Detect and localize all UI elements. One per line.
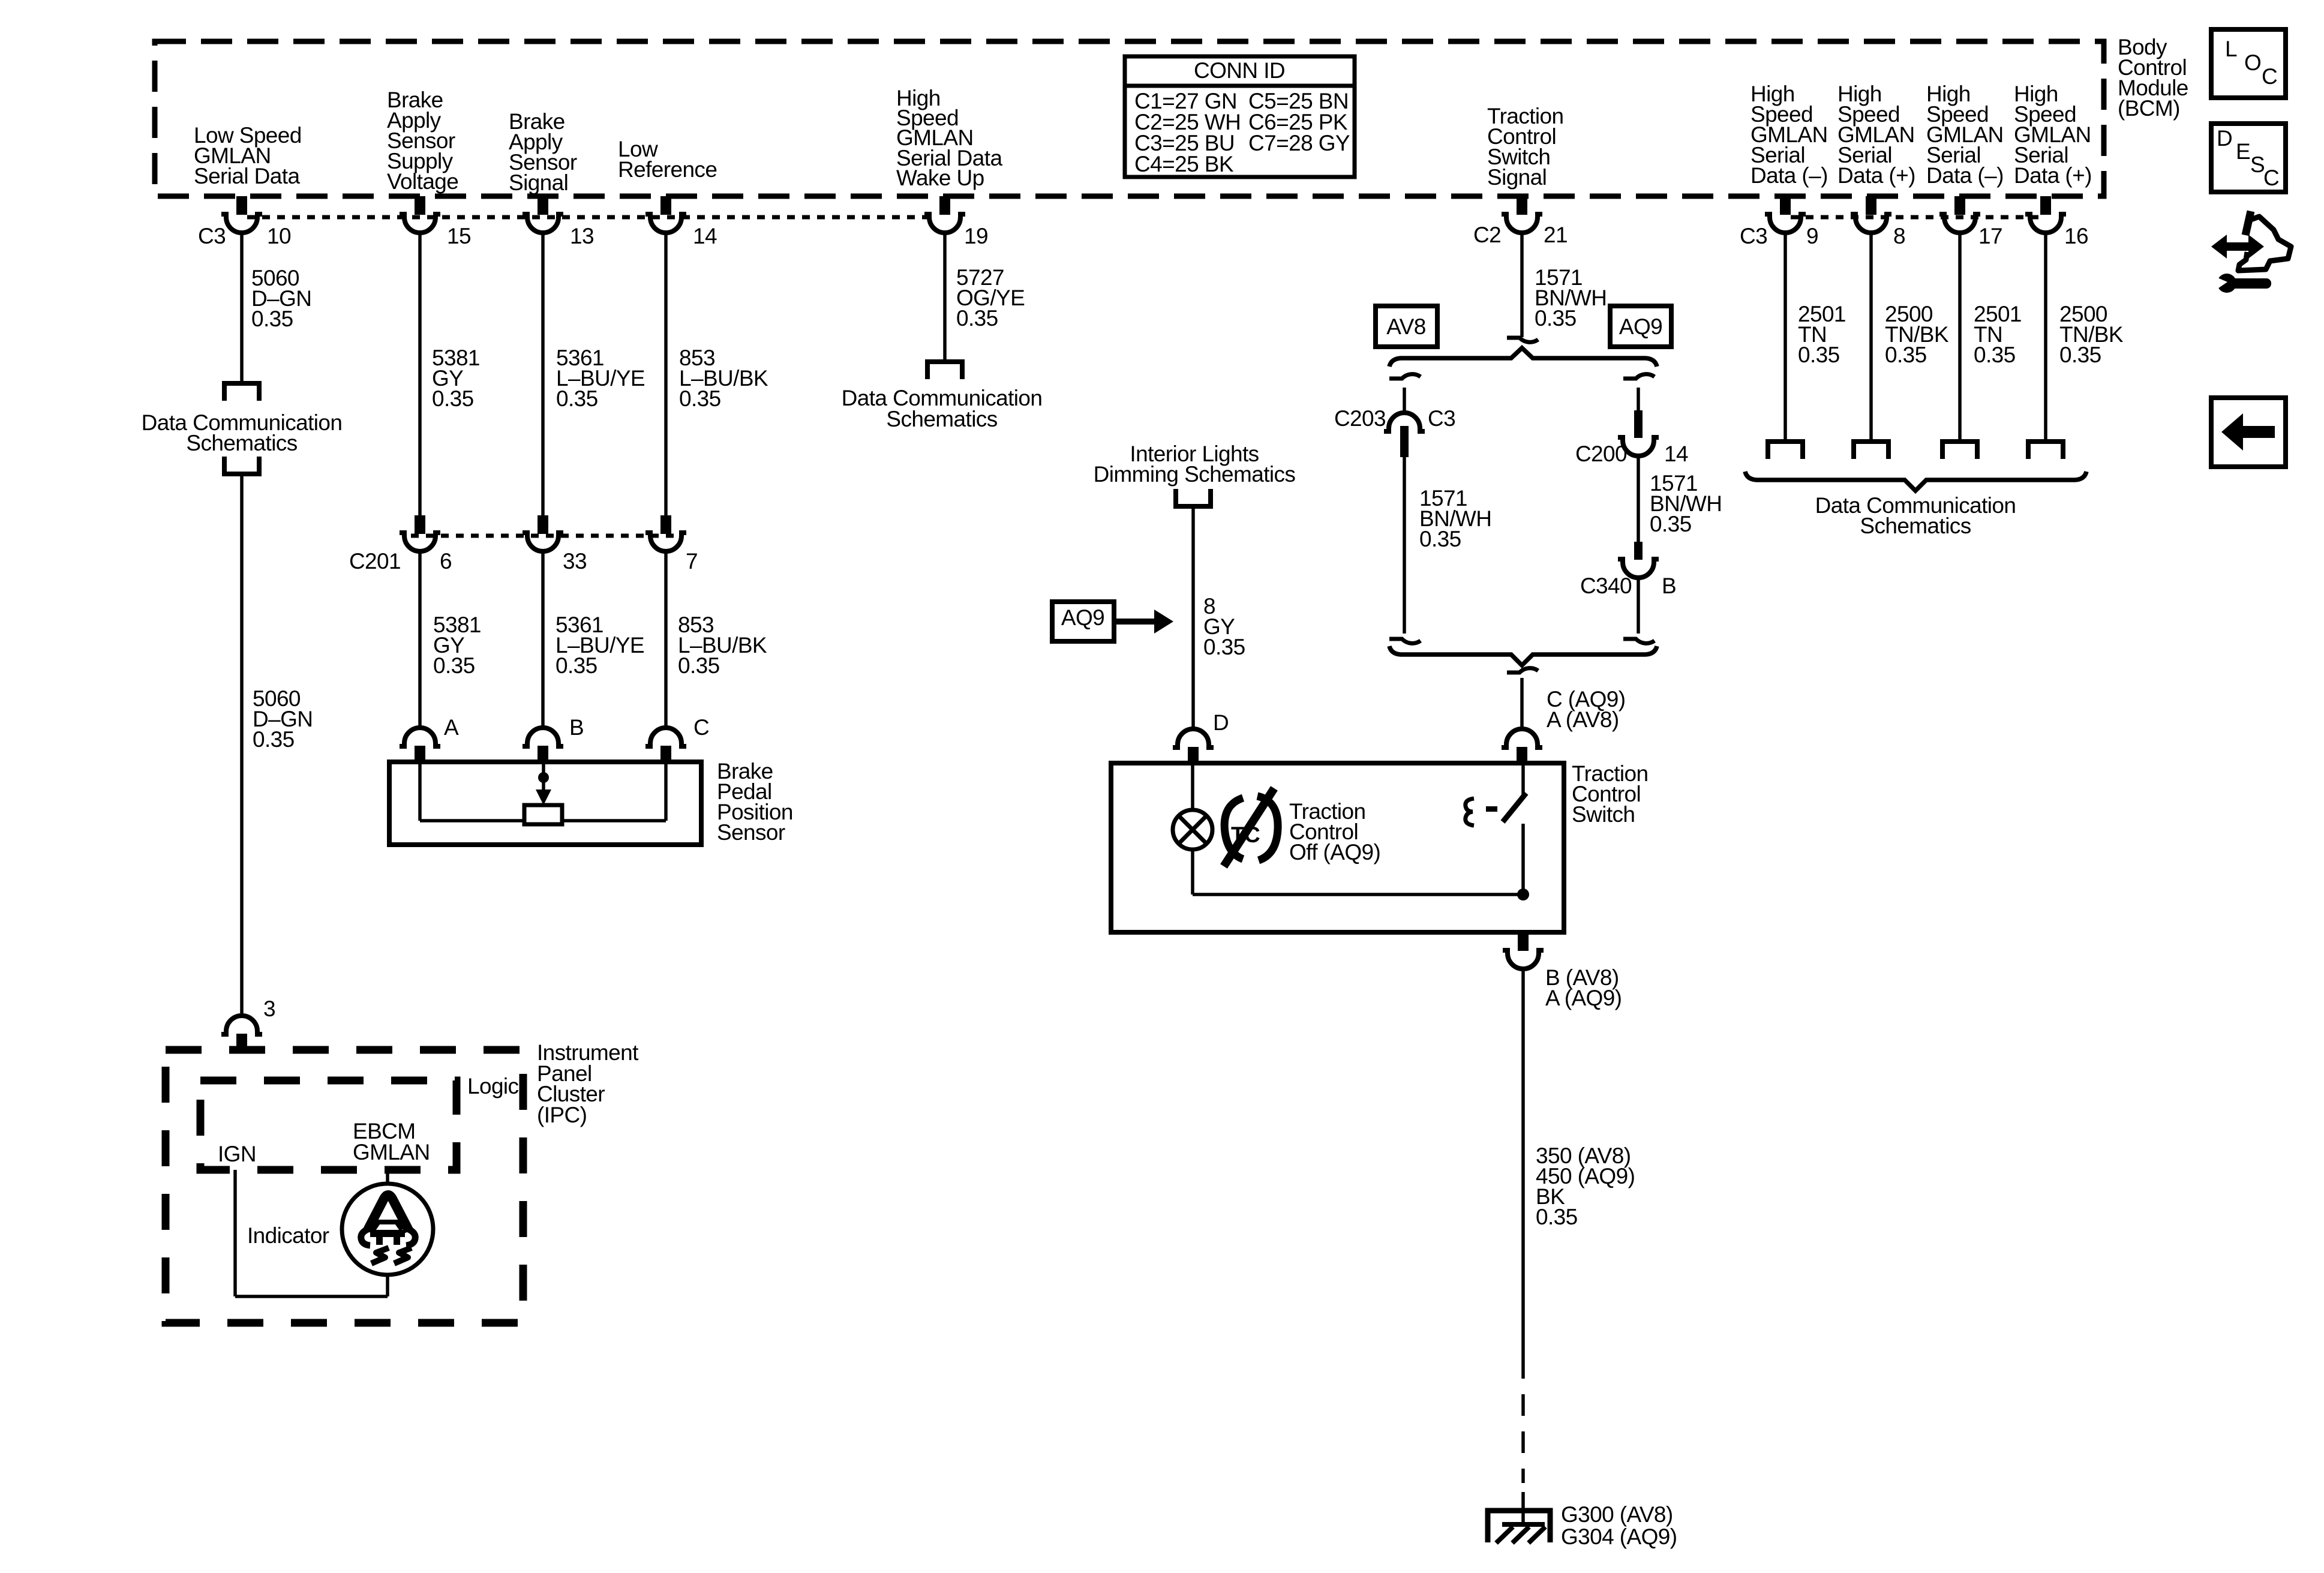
svg-text:D: D bbox=[2217, 126, 2232, 151]
switch contact (momentary) bbox=[1521, 763, 1525, 795]
brace grouping data wires bbox=[1745, 472, 2086, 491]
svg-text:0.35: 0.35 bbox=[251, 307, 293, 331]
svg-text:0.35: 0.35 bbox=[432, 386, 474, 411]
off-page bracket (Data Communication Schematics, bottom) bbox=[224, 457, 259, 474]
svg-text:0.35: 0.35 bbox=[1650, 512, 1692, 536]
Instrument Panel Cluster (IPC) dashed box bbox=[166, 1050, 523, 1323]
BCM pin 14 connector bbox=[660, 196, 671, 215]
AQ9 reference box bbox=[1610, 306, 1671, 347]
service information icon (arrow, connector, wrench) bbox=[2211, 235, 2264, 259]
ground wire solid segment bbox=[1521, 968, 1525, 1357]
svg-text:C203: C203 bbox=[1334, 406, 1386, 431]
AQ9 branch hook bbox=[1623, 374, 1655, 379]
connector C201 dotted line bbox=[411, 534, 681, 538]
svg-text:10: 10 bbox=[267, 224, 291, 248]
BCM pin 19 connector bbox=[939, 196, 950, 215]
svg-text:0.35: 0.35 bbox=[956, 306, 998, 331]
indicator lamp symbol (circle-X) bbox=[1173, 810, 1212, 849]
BCM pin 17 connector bbox=[1954, 196, 1965, 215]
svg-text:G300 (AV8): G300 (AV8) bbox=[1561, 1502, 1673, 1527]
svg-text:6: 6 bbox=[440, 549, 452, 574]
IGN wire down bbox=[233, 1170, 237, 1296]
wire to brake pedal position sensor bbox=[541, 551, 545, 727]
svg-text:Wake Up: Wake Up bbox=[896, 166, 984, 190]
svg-text:B: B bbox=[1662, 574, 1676, 598]
svg-text:33: 33 bbox=[563, 549, 587, 574]
connector C3 dotted line (left group) bbox=[247, 215, 935, 220]
wire 8 GY to switch pin D bbox=[1191, 509, 1195, 729]
svg-text:14: 14 bbox=[693, 224, 717, 248]
svg-text:C: C bbox=[693, 715, 709, 740]
Logic dashed box bbox=[200, 1080, 457, 1170]
off-page bracket (pin 19 Data Communication Schematics) bbox=[927, 362, 962, 379]
svg-text:Logic: Logic bbox=[467, 1074, 519, 1098]
svg-text:IGN: IGN bbox=[218, 1142, 256, 1166]
wire 2500 TN/BK bbox=[2044, 232, 2047, 439]
CONN ID table bbox=[1125, 56, 1355, 177]
switch actuator dash bbox=[1486, 806, 1497, 812]
svg-text:3: 3 bbox=[263, 996, 275, 1021]
svg-text:0.35: 0.35 bbox=[1885, 343, 1927, 367]
off-page bracket (Interior Lights Dimming Schematics) bbox=[1176, 489, 1211, 506]
svg-text:Schematics: Schematics bbox=[886, 407, 997, 431]
lamp feed wire bbox=[1191, 763, 1194, 810]
svg-text:Signal: Signal bbox=[1487, 165, 1547, 190]
wire to traction control switch bbox=[1520, 678, 1524, 729]
ground symbol G300/G304 bbox=[1488, 1511, 1550, 1542]
svg-text:Indicator: Indicator bbox=[247, 1223, 329, 1248]
svg-text:0.35: 0.35 bbox=[253, 727, 295, 752]
svg-text:C200: C200 bbox=[1575, 442, 1627, 466]
svg-text:Schematics: Schematics bbox=[186, 431, 297, 455]
svg-text:Serial Data: Serial Data bbox=[194, 164, 300, 188]
off-page bracket (pin 9) bbox=[1768, 442, 1803, 459]
potentiometer element bbox=[524, 805, 562, 824]
svg-text:AQ9: AQ9 bbox=[1061, 605, 1104, 630]
svg-text:(IPC): (IPC) bbox=[537, 1103, 587, 1127]
svg-text:A (AQ9): A (AQ9) bbox=[1545, 986, 1622, 1010]
svg-text:C: C bbox=[2262, 64, 2277, 89]
wire 5060 D-GN upper segment bbox=[240, 232, 244, 381]
BCM pin 15 connector bbox=[415, 196, 425, 215]
wire to brake pedal position sensor bbox=[418, 551, 422, 727]
wire 5060 D-GN lower segment bbox=[240, 476, 244, 1013]
C201 pin 33 connector bbox=[538, 515, 548, 534]
off-page bracket (pin 16) bbox=[2028, 442, 2063, 459]
svg-text:0.35: 0.35 bbox=[2059, 343, 2101, 367]
svg-text:Reference: Reference bbox=[618, 157, 717, 182]
svg-text:0.35: 0.35 bbox=[678, 653, 720, 678]
switch actuator spring symbol bbox=[1466, 798, 1474, 825]
sensor pin C connector bbox=[645, 728, 686, 746]
svg-text:0.35: 0.35 bbox=[1419, 527, 1461, 551]
connector C340 pin B bbox=[1634, 542, 1643, 560]
svg-text:AV8: AV8 bbox=[1386, 314, 1425, 339]
C201 pin 6 connector bbox=[415, 515, 425, 534]
svg-text:O: O bbox=[2244, 50, 2261, 75]
svg-text:A (AV8): A (AV8) bbox=[1547, 707, 1619, 732]
svg-text:0.35: 0.35 bbox=[1203, 635, 1245, 659]
wire bottom of indicator bbox=[235, 1295, 388, 1298]
BCM pin 8 connector bbox=[1866, 196, 1876, 215]
svg-text:21: 21 bbox=[1544, 223, 1568, 247]
svg-text:7: 7 bbox=[686, 549, 698, 574]
BCM pin 13 connector bbox=[538, 196, 548, 215]
wire 2500 TN/BK bbox=[1869, 232, 1873, 439]
svg-text:Sensor: Sensor bbox=[717, 820, 785, 845]
svg-text:C2: C2 bbox=[1473, 223, 1501, 247]
svg-text:C4=25 BK: C4=25 BK bbox=[1134, 152, 1234, 176]
AQ9 callout arrow bbox=[1116, 619, 1154, 625]
AQ9 branch wire lower bbox=[1637, 578, 1640, 634]
BCM pin 10 connector (C3) bbox=[236, 196, 247, 215]
svg-text:E: E bbox=[2236, 139, 2250, 164]
svg-text:Switch: Switch bbox=[1572, 802, 1635, 827]
switch pin B connector bbox=[1518, 932, 1529, 951]
connector C3 dotted line (right group) bbox=[1791, 215, 2040, 220]
svg-text:17: 17 bbox=[1978, 224, 2002, 248]
svg-text:Signal: Signal bbox=[509, 170, 568, 195]
svg-text:0.35: 0.35 bbox=[1536, 1205, 1578, 1229]
svg-text:15: 15 bbox=[447, 224, 471, 248]
Body Control Module (BCM) dashed box bbox=[155, 41, 2104, 196]
AQ9 branch wire upper bbox=[1637, 388, 1640, 414]
wire 2501 TN bbox=[1783, 232, 1787, 439]
sensor pin A connector bbox=[400, 728, 440, 746]
splice hook above brace bbox=[1507, 338, 1538, 342]
AV8 branch hook bbox=[1389, 374, 1421, 379]
svg-text:G304 (AQ9): G304 (AQ9) bbox=[1561, 1524, 1677, 1549]
lamp lower wire bbox=[1191, 849, 1194, 894]
AQ9 branch wire middle bbox=[1637, 456, 1640, 543]
switch fixed contact wire bbox=[1521, 824, 1525, 894]
hook below merge brace bbox=[1507, 668, 1538, 673]
switch pin D connector bbox=[1173, 729, 1214, 748]
svg-text:C3: C3 bbox=[198, 224, 226, 248]
Brake Pedal Position Sensor box bbox=[389, 762, 701, 845]
C201 pin 7 connector bbox=[660, 515, 671, 534]
sensor internal wire C side bbox=[664, 762, 668, 821]
svg-text:GMLAN: GMLAN bbox=[353, 1140, 430, 1164]
svg-text:0.35: 0.35 bbox=[1974, 343, 2016, 367]
AQ9 branch bottom hook bbox=[1623, 639, 1655, 643]
indicator lamp (traction control symbol) bbox=[342, 1184, 433, 1275]
svg-text:Voltage: Voltage bbox=[387, 169, 458, 194]
svg-text:Data (+): Data (+) bbox=[1837, 163, 1915, 188]
svg-text:9: 9 bbox=[1806, 224, 1818, 248]
svg-text:Dimming Schematics: Dimming Schematics bbox=[1094, 462, 1296, 487]
lamp to switch wire bbox=[1193, 893, 1523, 896]
AV8 branch bottom hook bbox=[1389, 639, 1421, 643]
sensor pin B connector bbox=[523, 728, 563, 746]
Traction Control Switch box bbox=[1111, 763, 1564, 932]
connector C200 pin 14 bbox=[1634, 410, 1643, 438]
svg-text:Data (+): Data (+) bbox=[2014, 163, 2092, 188]
svg-text:A: A bbox=[444, 715, 459, 740]
svg-text:0.35: 0.35 bbox=[556, 653, 597, 678]
svg-text:Off (AQ9): Off (AQ9) bbox=[1289, 840, 1380, 864]
svg-text:S: S bbox=[2250, 152, 2265, 177]
off-page bracket (pin 8) bbox=[1854, 442, 1888, 459]
svg-text:0.35: 0.35 bbox=[1535, 306, 1577, 331]
ground wire final segment bbox=[1521, 1492, 1525, 1527]
svg-text:C7=28 GY: C7=28 GY bbox=[1248, 131, 1350, 155]
DESC icon box bbox=[2211, 124, 2286, 192]
potentiometer wiper arrow bbox=[542, 762, 545, 792]
svg-text:19: 19 bbox=[964, 224, 988, 248]
svg-text:B: B bbox=[569, 715, 584, 740]
AV8 branch wire lower bbox=[1403, 457, 1406, 634]
svg-text:13: 13 bbox=[570, 224, 594, 248]
svg-text:D: D bbox=[1213, 710, 1229, 735]
svg-text:0.35: 0.35 bbox=[679, 386, 721, 411]
svg-text:Schematics: Schematics bbox=[1860, 514, 1971, 538]
svg-text:C: C bbox=[2263, 166, 2279, 190]
svg-text:C3: C3 bbox=[1428, 406, 1455, 431]
svg-text:16: 16 bbox=[2064, 224, 2088, 248]
LOC icon box bbox=[2211, 29, 2286, 98]
svg-text:0.35: 0.35 bbox=[556, 386, 598, 411]
svg-text:L: L bbox=[2225, 37, 2237, 61]
wire 5727 OG/YE bbox=[943, 232, 947, 359]
brace merging branches to switch bbox=[1389, 646, 1657, 665]
brace splitting AV8 / AQ9 branches bbox=[1389, 348, 1657, 367]
sensor internal wire A side bbox=[418, 762, 422, 821]
svg-text:AQ9: AQ9 bbox=[1619, 314, 1662, 339]
svg-text:CONN ID: CONN ID bbox=[1194, 58, 1285, 83]
off-page bracket (Data Communication Schematics, top) bbox=[224, 383, 259, 401]
indicator bottom wire bbox=[386, 1273, 389, 1296]
BCM pin 9 connector (C3) bbox=[1780, 196, 1791, 215]
switch pin C/A connector bbox=[1502, 729, 1542, 748]
BCM pin 16 connector bbox=[2040, 196, 2051, 215]
switch blade bbox=[1503, 793, 1526, 822]
svg-text:C3: C3 bbox=[1740, 224, 1767, 248]
ground wire dashed segment bbox=[1521, 1357, 1525, 1483]
junction node bbox=[1517, 888, 1529, 900]
svg-text:Data (–): Data (–) bbox=[1750, 163, 1828, 188]
connector C203 / C3 bbox=[1384, 413, 1425, 431]
wire to brake pedal position sensor bbox=[664, 551, 668, 727]
svg-text:14: 14 bbox=[1664, 442, 1688, 466]
BCM pin 21 connector (C2) bbox=[1517, 196, 1527, 215]
off-page bracket (pin 17) bbox=[1942, 442, 1977, 459]
svg-text:0.35: 0.35 bbox=[1798, 343, 1840, 367]
svg-text:8: 8 bbox=[1893, 224, 1905, 248]
svg-text:Data (–): Data (–) bbox=[1926, 163, 2004, 188]
svg-text:C201: C201 bbox=[349, 549, 401, 574]
svg-text:C340: C340 bbox=[1580, 574, 1632, 598]
svg-text:(BCM): (BCM) bbox=[2118, 96, 2180, 121]
EBCM GMLAN wire to indicator bbox=[386, 1170, 389, 1185]
AQ9 reference box (callout) bbox=[1052, 602, 1114, 641]
wire from BCM pin 15 bbox=[418, 232, 422, 515]
wire 1571 BN/WH from pin 21 bbox=[1520, 232, 1524, 337]
svg-text:0.35: 0.35 bbox=[433, 653, 475, 678]
wire 2501 TN bbox=[1958, 232, 1962, 439]
AV8 reference box bbox=[1376, 306, 1437, 347]
back arrow icon box bbox=[2211, 398, 2286, 467]
AV8 branch wire upper bbox=[1403, 388, 1406, 413]
IPC pin 3 connector bbox=[221, 1016, 262, 1034]
wire from BCM pin 13 bbox=[541, 232, 545, 515]
wire from BCM pin 14 bbox=[664, 232, 668, 515]
